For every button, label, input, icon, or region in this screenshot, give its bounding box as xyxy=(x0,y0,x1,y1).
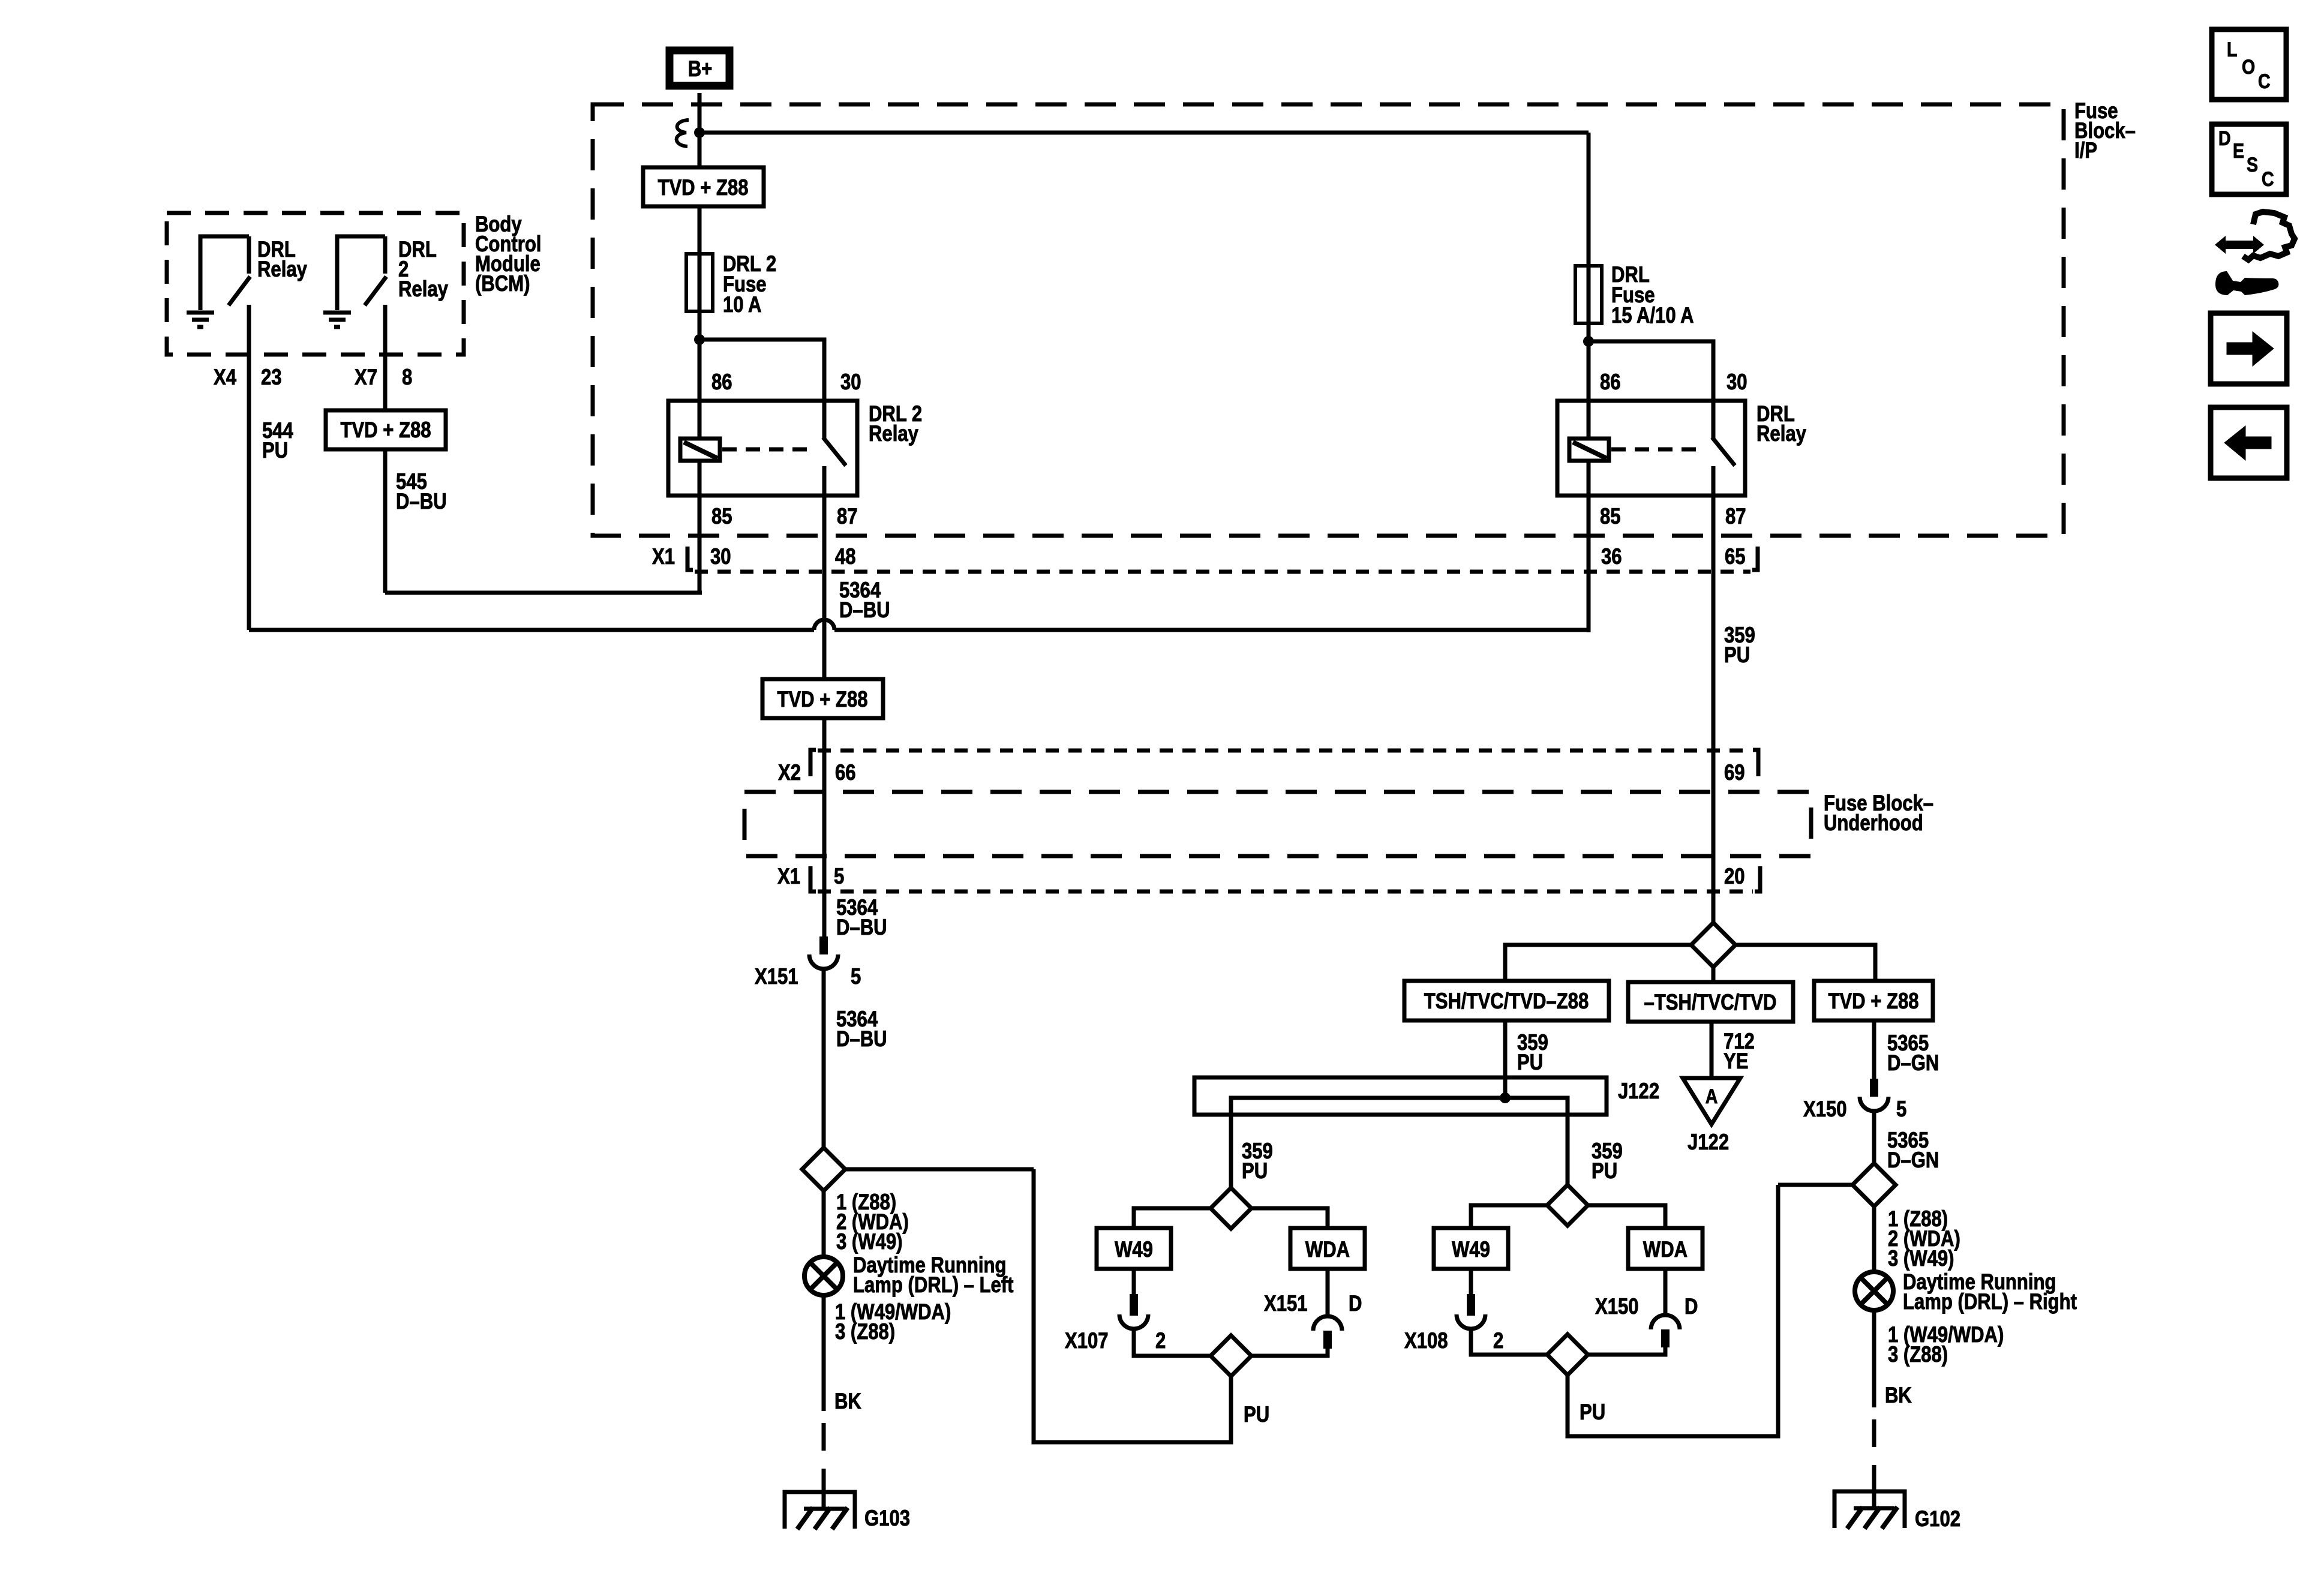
wire splice to TSH box xyxy=(1505,945,1691,983)
junction dot DRL relay branch xyxy=(1583,336,1594,347)
svg-text:WDA: WDA xyxy=(1643,1238,1688,1262)
wire W49 to X107 xyxy=(1132,1269,1136,1294)
svg-text:66: 66 xyxy=(835,761,856,785)
inline box TVD + Z88 (5364 wire) xyxy=(762,679,883,718)
ground symbol G103 xyxy=(785,1492,855,1529)
svg-text:PU: PU xyxy=(1580,1400,1605,1425)
svg-text:3 (W49): 3 (W49) xyxy=(836,1230,902,1254)
wire DRL relay pin 87 down (359) xyxy=(1712,496,1716,923)
wire down to DRL fuse xyxy=(1587,133,1591,266)
icon box DESC xyxy=(2212,124,2286,194)
connector X151-D cup xyxy=(1313,1316,1342,1331)
connector X150-D pin stub xyxy=(1661,1329,1670,1347)
wire to WDA box (left pair) xyxy=(1251,1208,1328,1229)
svg-text:85: 85 xyxy=(711,505,732,529)
svg-text:TVD + Z88: TVD + Z88 xyxy=(340,418,431,443)
wire -TSH box to triangle A xyxy=(1710,1022,1714,1079)
junction dot DRL 2 relay branch xyxy=(694,334,705,345)
wire J122 right tap down xyxy=(1566,1115,1570,1186)
wire to W49 box (right pair) xyxy=(1471,1205,1547,1229)
svg-text:X150: X150 xyxy=(1595,1295,1639,1319)
BCM DRL 2 relay ground leg xyxy=(337,236,385,310)
wire X151-D to bottom splice xyxy=(1251,1347,1328,1356)
coil wire top (DRL 2 relay) xyxy=(698,401,702,439)
wire right lamp to BK xyxy=(1872,1310,1876,1407)
svg-text:J122: J122 xyxy=(1688,1130,1729,1155)
svg-text:PU: PU xyxy=(262,439,288,463)
connector bracket X1 right xyxy=(1752,547,1758,570)
ground symbol (BCM DRL relay) xyxy=(187,311,214,315)
inline box TVD + Z88 (5365 wire) xyxy=(1814,981,1933,1020)
wire X107 to bottom splice xyxy=(1134,1329,1211,1356)
svg-text:W49: W49 xyxy=(1452,1238,1490,1262)
wire right pair splice to right lamp branch xyxy=(1568,1185,1778,1436)
svg-text:X4: X4 xyxy=(214,365,236,390)
svg-text:D: D xyxy=(1349,1292,1362,1316)
svg-text:PU: PU xyxy=(1517,1050,1543,1075)
option box W49 (left pair) xyxy=(1097,1228,1171,1269)
wire to WDA box (right pair) xyxy=(1588,1205,1665,1229)
splice diamond (359 PU) xyxy=(1691,923,1736,967)
svg-text:TSH/TVC/TVD–Z88: TSH/TVC/TVD–Z88 xyxy=(1424,989,1589,1014)
svg-text:X151: X151 xyxy=(1264,1292,1308,1316)
switch blade (DRL relay) xyxy=(1712,437,1735,466)
svg-text:W49: W49 xyxy=(1115,1238,1153,1262)
connector bracket X2 right xyxy=(1753,750,1758,776)
svg-text:BK: BK xyxy=(834,1389,861,1414)
svg-text:87: 87 xyxy=(1725,505,1746,529)
svg-text:X151: X151 xyxy=(755,965,798,989)
svg-text:5: 5 xyxy=(851,965,861,989)
svg-text:23: 23 xyxy=(261,365,282,390)
svg-text:J122: J122 xyxy=(1618,1079,1659,1104)
wire W49 to X108 xyxy=(1469,1269,1473,1294)
svg-text:69: 69 xyxy=(1724,761,1745,785)
svg-text:5: 5 xyxy=(1896,1097,1906,1122)
connector X107 pin stub xyxy=(1130,1294,1138,1316)
connector X108 cup xyxy=(1457,1314,1485,1329)
connector row X1 dotted xyxy=(695,570,1750,574)
inline box TSH/TVC/TVD-Z88 xyxy=(1404,981,1609,1020)
svg-text:D: D xyxy=(2218,127,2231,150)
svg-text:15 A/10 A: 15 A/10 A xyxy=(1611,304,1694,328)
svg-text:Underhood: Underhood xyxy=(1824,811,1923,836)
splice diamond (left lamp) xyxy=(802,1148,845,1191)
relay DRL 2 Relay box xyxy=(668,401,857,496)
svg-text:TVD + Z88: TVD + Z88 xyxy=(777,688,867,712)
svg-text:86: 86 xyxy=(711,370,732,395)
svg-text:C: C xyxy=(2262,168,2274,191)
connector row X1 underhood dotted xyxy=(818,890,1753,894)
wire TSH box to J122 xyxy=(1503,1020,1508,1098)
splice diamond (left pair bottom) xyxy=(1211,1335,1251,1376)
svg-text:Relay: Relay xyxy=(869,422,918,446)
wire 5364 D-BU to splice xyxy=(822,969,826,1149)
svg-text:D: D xyxy=(1685,1295,1698,1319)
svg-text:3 (W49): 3 (W49) xyxy=(1888,1247,1954,1271)
svg-text:10 A: 10 A xyxy=(723,293,761,317)
wire splice to TVD box xyxy=(1736,945,1875,983)
relay link dashed (DRL 2 relay) xyxy=(722,448,816,452)
wire 545 D-BU down xyxy=(383,449,388,593)
lamp Daytime Running Lamp DRL Right xyxy=(1855,1272,1893,1310)
wire through DRL 2 fuse xyxy=(698,254,702,311)
svg-text:D–GN: D–GN xyxy=(1887,1148,1939,1173)
svg-text:D–BU: D–BU xyxy=(839,598,890,623)
splice diamond (left pair top) xyxy=(1211,1188,1251,1229)
splice pack J122 box xyxy=(1194,1077,1607,1115)
svg-text:X107: X107 xyxy=(1065,1329,1109,1353)
switch fixed contact (DRL relay) xyxy=(1712,401,1716,439)
option box WDA (right pair) xyxy=(1628,1228,1703,1269)
connector X150 pin stub xyxy=(1870,1079,1878,1097)
svg-text:D–GN: D–GN xyxy=(1887,1051,1939,1076)
ground symbol (BCM DRL 2 relay) xyxy=(323,311,351,315)
wire splice down to -TSH box xyxy=(1712,967,1716,984)
coil wire bottom (DRL relay) xyxy=(1587,461,1591,496)
svg-text:WDA: WDA xyxy=(1305,1238,1350,1262)
svg-text:30: 30 xyxy=(710,545,731,569)
coil wire top (DRL relay) xyxy=(1587,401,1591,439)
off-page triangle A (J122) xyxy=(1683,1078,1740,1124)
svg-text:Relay: Relay xyxy=(257,257,307,282)
svg-text:I/P: I/P xyxy=(2074,139,2097,163)
connector bracket X1 underhood right xyxy=(1755,866,1760,891)
inline box TVD + Z88 (545 wire) xyxy=(326,410,446,449)
wire X150 to splice xyxy=(1872,1112,1876,1164)
splice diamond (right pair bottom) xyxy=(1547,1334,1588,1375)
BCM DRL 2 relay blade xyxy=(365,277,386,305)
wire splice to left lamp xyxy=(822,1191,826,1259)
svg-text:86: 86 xyxy=(1600,370,1621,395)
BCM DRL relay ground leg xyxy=(200,236,249,310)
wire left pair splice down xyxy=(1034,1169,1231,1442)
fuse block underhood dashed outline xyxy=(744,792,1811,856)
svg-text:L: L xyxy=(2227,38,2237,61)
ground symbol G102 xyxy=(1834,1491,1905,1528)
connector X151-D pin stub xyxy=(1323,1331,1332,1349)
BCM DRL 2 relay output wire xyxy=(383,305,388,355)
BCM DRL relay output wire xyxy=(247,305,251,355)
svg-text:30: 30 xyxy=(1727,370,1747,395)
wire DRL 2 relay pin 87 down (5364) xyxy=(822,496,827,681)
svg-text:65: 65 xyxy=(1725,545,1746,569)
coil wire bottom (DRL 2 relay) xyxy=(698,461,702,496)
wire BK dashed (left) xyxy=(822,1423,826,1490)
wire WDA to X151-D xyxy=(1326,1269,1330,1317)
wire 545 D-BU horizontal to relay 85 xyxy=(385,591,702,595)
svg-text:C: C xyxy=(2258,70,2271,93)
fuse DRL 2 Fuse 10 A xyxy=(686,254,713,311)
wire branch to pin 30 (DRL relay) xyxy=(1589,341,1713,403)
svg-text:85: 85 xyxy=(1600,505,1621,529)
svg-text:D–BU: D–BU xyxy=(836,1027,887,1052)
connector X151 pin stub xyxy=(819,936,828,954)
svg-text:G103: G103 xyxy=(864,1506,910,1531)
switch output (DRL relay) xyxy=(1712,466,1716,496)
splice squiggle on B+ feed xyxy=(677,120,689,146)
svg-text:2: 2 xyxy=(1493,1329,1503,1353)
svg-text:30: 30 xyxy=(840,370,861,395)
svg-text:E: E xyxy=(2233,140,2244,163)
icon vehicle with wrench xyxy=(2215,236,2264,254)
junction dot B+ branch xyxy=(694,127,705,138)
svg-text:G102: G102 xyxy=(1915,1507,1960,1532)
connector X108 pin stub xyxy=(1467,1294,1475,1316)
wire splice right arm (left lamp) xyxy=(845,1167,1034,1172)
wire through DRL fuse xyxy=(1587,266,1591,323)
wire X150-D to bottom splice xyxy=(1588,1346,1665,1355)
svg-text:20: 20 xyxy=(1724,864,1745,889)
wire B+ down to TVD xyxy=(698,93,702,167)
svg-text:A: A xyxy=(1706,1085,1718,1108)
connector X150-D cup xyxy=(1651,1315,1680,1329)
icon box LOC xyxy=(2212,29,2286,100)
splice diamond (right lamp) xyxy=(1852,1163,1896,1206)
connector X150 cup xyxy=(1860,1097,1888,1111)
BCM DRL relay contact stub xyxy=(247,236,251,274)
junction dot J122 feed xyxy=(1500,1092,1511,1103)
svg-text:5: 5 xyxy=(834,864,844,889)
svg-text:B+: B+ xyxy=(688,57,713,82)
connector X107 cup xyxy=(1119,1314,1148,1329)
BCM DRL relay blade xyxy=(229,277,250,305)
connector X151 cup xyxy=(809,954,838,969)
svg-text:PU: PU xyxy=(1592,1159,1617,1184)
icon box arrow left xyxy=(2211,407,2287,478)
switch blade (DRL 2 relay) xyxy=(823,437,846,466)
wire left lamp to BK xyxy=(822,1295,826,1411)
relay link dashed (DRL relay) xyxy=(1611,448,1705,452)
wire DRL 2 fuse to relay 86 xyxy=(698,311,702,403)
wire DRL 2 relay pin 85 down xyxy=(698,496,702,595)
wire DRL fuse to relay 86 xyxy=(1587,323,1591,403)
svg-text:O: O xyxy=(2242,56,2255,79)
connector bracket X1 left xyxy=(687,547,693,570)
svg-text:X1: X1 xyxy=(652,545,675,569)
svg-text:X7: X7 xyxy=(355,365,377,390)
svg-text:D–BU: D–BU xyxy=(836,915,887,940)
connector bracket X1 underhood left xyxy=(810,866,816,891)
wire 5364 to X151 xyxy=(822,718,827,938)
power symbol B+ xyxy=(669,50,729,86)
svg-text:3 (Z88): 3 (Z88) xyxy=(1888,1343,1948,1367)
fuse DRL Fuse 15 A/10 A xyxy=(1575,266,1602,323)
wire TVD to X150 xyxy=(1872,1020,1876,1080)
svg-text:TVD + Z88: TVD + Z88 xyxy=(1828,989,1918,1014)
svg-text:87: 87 xyxy=(837,505,858,529)
wire branch to pin 30 (DRL 2 relay) xyxy=(699,340,824,403)
connector bracket X2 left xyxy=(810,750,816,776)
svg-text:X2: X2 xyxy=(778,761,801,785)
wire 544 PU horizontal with hop xyxy=(249,628,814,632)
wire splice to right lamp xyxy=(1872,1206,1876,1274)
svg-text:TVD + Z88: TVD + Z88 xyxy=(657,176,748,200)
wire 544 PU from BCM X4 xyxy=(247,355,251,630)
wire X108 to bottom splice xyxy=(1471,1329,1547,1355)
svg-text:Lamp (DRL) – Left: Lamp (DRL) – Left xyxy=(853,1273,1014,1298)
wire J122 left tap down xyxy=(1229,1115,1233,1189)
svg-text:S: S xyxy=(2247,154,2258,176)
svg-text:X150: X150 xyxy=(1803,1097,1847,1122)
relay coil (DRL relay) xyxy=(1569,439,1609,461)
wire WDA to X150-D xyxy=(1664,1269,1668,1316)
splice diamond (right pair top) xyxy=(1547,1185,1588,1226)
svg-text:8: 8 xyxy=(402,365,412,390)
svg-text:Lamp (DRL) – Right: Lamp (DRL) – Right xyxy=(1903,1290,2077,1314)
fuse block I/P dashed outline xyxy=(593,104,2064,536)
lamp Daytime Running Lamp DRL Left xyxy=(804,1257,843,1295)
svg-text:X1: X1 xyxy=(777,864,800,889)
svg-text:BK: BK xyxy=(1885,1383,1912,1408)
svg-text:PU: PU xyxy=(1244,1403,1269,1427)
inline box -TSH/TVC/TVD xyxy=(1628,982,1793,1022)
svg-text:YE: YE xyxy=(1724,1049,1748,1074)
body control module dashed outline xyxy=(167,213,464,355)
connector row X2 dotted xyxy=(818,749,1751,753)
option box WDA (left pair) xyxy=(1290,1228,1365,1269)
relay coil (DRL 2 relay) xyxy=(680,439,720,461)
svg-text:2: 2 xyxy=(1155,1329,1166,1353)
wire to W49 box (left pair) xyxy=(1134,1208,1211,1229)
switch output (DRL 2 relay) xyxy=(822,466,827,496)
svg-text:Relay: Relay xyxy=(398,277,448,302)
icon box arrow right xyxy=(2211,313,2287,384)
J122 internal bus xyxy=(1231,1098,1568,1115)
wire B+ horizontal to DRL fuse xyxy=(699,131,1589,135)
option box W49 (right pair) xyxy=(1434,1228,1508,1269)
inline box TVD + Z88 (left feed) xyxy=(643,167,764,206)
svg-text:PU: PU xyxy=(1242,1159,1268,1184)
svg-text:48: 48 xyxy=(835,545,856,569)
svg-text:X108: X108 xyxy=(1404,1329,1448,1353)
switch fixed contact (DRL 2 relay) xyxy=(822,401,827,439)
wire TVD to DRL 2 fuse xyxy=(698,206,702,256)
wire BK dashed (right) xyxy=(1872,1419,1876,1490)
wire splice left arm (right lamp) xyxy=(1778,1183,1853,1187)
svg-text:(BCM): (BCM) xyxy=(475,272,530,296)
svg-text:3 (Z88): 3 (Z88) xyxy=(835,1320,895,1344)
wire 545 from BCM X7 xyxy=(383,355,388,412)
relay DRL Relay box xyxy=(1557,401,1745,496)
svg-text:D–BU: D–BU xyxy=(396,490,447,514)
svg-text:36: 36 xyxy=(1601,545,1622,569)
wire DRL relay pin 85 down xyxy=(1587,496,1591,632)
BCM DRL 2 relay contact stub xyxy=(383,236,388,274)
svg-text:PU: PU xyxy=(1724,643,1750,668)
svg-text:Relay: Relay xyxy=(1756,422,1806,446)
svg-text:–TSH/TVC/TVD: –TSH/TVC/TVD xyxy=(1644,990,1777,1015)
